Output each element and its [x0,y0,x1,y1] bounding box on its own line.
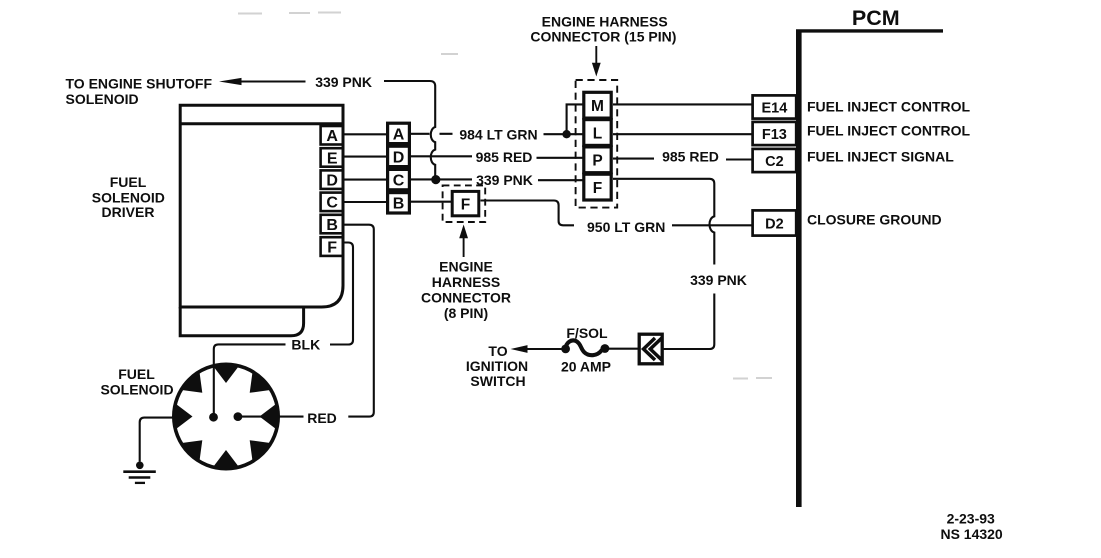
svg-text:FUEL INJECT CONTROL: FUEL INJECT CONTROL [807,123,971,139]
fuel solenoid driver lower slab [180,307,303,336]
wire RED: driver pin B right, down, label RED, to solenoid terminal [242,225,374,417]
svg-text:SWITCH: SWITCH [470,373,525,389]
PCM terminal D2 box [753,210,797,235]
ground connection dot [136,462,144,470]
arrowhead to engine shutoff solenoid [219,78,242,85]
arrow from 15-pin label down to connector [595,46,597,65]
svg-text:RED: RED [307,410,337,426]
junction dot 984 LT GRN at pin L [562,130,570,138]
arrowhead to ignition switch [511,345,528,353]
harness pin A [388,123,410,143]
wire fuse to splice [609,348,639,350]
svg-text:CONNECTOR: CONNECTOR [421,290,511,306]
svg-text:985 RED: 985 RED [476,149,533,165]
svg-text:D: D [326,173,338,190]
svg-text:C: C [393,173,405,190]
fuse F/SOL 20 AMP element [565,340,605,355]
PCM terminal F13 box [753,122,797,145]
wire branch up from junction to pin M [567,104,583,134]
splice chevron 2 [650,338,662,360]
svg-text:985 RED: 985 RED [662,149,719,165]
svg-text:984 LT GRN: 984 LT GRN [459,126,537,142]
PCM top horizontal line [796,29,943,32]
arrow from 8-pin label up to connector [463,236,465,257]
svg-text:F: F [461,196,470,213]
wire pin M to PCM E14 [613,103,752,105]
driver pin B [321,215,344,234]
faint scan artifact mid right [733,377,772,380]
driver pin D [321,170,344,189]
wire 950 LT GRN from 8-pin F right, down, to label [481,201,575,226]
solenoid terminal dot left [209,413,218,422]
wire 339 PNK from pin F right, down, hop over 950 wire, to splice [613,179,714,349]
svg-text:FUEL: FUEL [118,366,155,382]
faint scan artifact top [238,13,341,14]
8-pin connector pin F box [452,191,479,215]
svg-text:L: L [593,125,602,142]
svg-text:C2: C2 [765,154,784,170]
wire pin L to PCM F13 [613,133,752,135]
15-pin connector dashed outline [576,80,618,208]
wire 950 LT GRN label to PCM D2 [672,224,752,226]
15-pin connector pin M [584,92,611,118]
svg-text:2-23-93: 2-23-93 [947,510,995,526]
svg-text:B: B [326,217,338,234]
driver pin F [321,237,344,256]
svg-text:F: F [327,239,337,256]
15-pin connector pin F [584,174,611,200]
svg-text:TO: TO [488,343,507,359]
solenoid teeth (8 inward triangles) [175,366,277,468]
svg-text:(8 PIN): (8 PIN) [444,305,488,321]
wire pin D to harness C [343,179,386,181]
fuse left terminal dot [561,345,570,354]
splice connector box [639,334,662,364]
svg-text:FUEL INJECT SIGNAL: FUEL INJECT SIGNAL [807,149,954,165]
harness pin C [388,169,410,189]
svg-text:339 PNK: 339 PNK [476,172,533,188]
svg-text:20 AMP: 20 AMP [561,358,611,374]
wire 339 PNK top run to engine shutoff solenoid [239,80,306,82]
svg-text:B: B [393,196,405,213]
svg-text:IGNITION: IGNITION [466,358,528,374]
wire pin P to 985 RED label to PCM C2 [613,158,752,161]
wire TO IGNITION SWITCH arrow line [524,348,562,350]
svg-text:F: F [593,180,602,197]
svg-text:A: A [393,126,405,143]
svg-text:D2: D2 [765,216,784,232]
svg-text:PCM: PCM [852,6,900,30]
fuel solenoid circle [174,364,278,468]
wire 985 RED left segments [411,156,583,158]
harness pin D [388,146,410,166]
driver pin C [321,193,344,212]
solenoid terminal dot right [234,412,243,421]
svg-text:339 PNK: 339 PNK [315,74,372,90]
faint scan artifact near connector label [441,53,458,55]
splice chevron 1 [644,338,656,360]
svg-text:DRIVER: DRIVER [102,204,155,220]
harness pin B [388,193,410,213]
PCM terminal C2 box [753,149,797,172]
svg-text:SOLENOID: SOLENOID [92,189,165,205]
svg-text:M: M [591,98,604,115]
svg-text:E14: E14 [761,100,787,116]
15-pin connector pin P [584,147,611,173]
svg-text:F/SOL: F/SOL [566,325,608,341]
arrowhead up to 8-pin connector [459,225,468,239]
8-pin connector dashed outline [443,185,486,222]
wire 984 LT GRN segments [411,133,583,135]
wire 339 PNK mid segments [411,178,583,181]
svg-text:ENGINE HARNESS: ENGINE HARNESS [542,14,668,30]
wire BLK: driver pin F right, down, label BLK, left, down to solenoid [214,243,353,415]
wire harness B to 8-pin connector F [411,201,451,203]
wire pin C to harness B [343,201,386,203]
svg-text:F13: F13 [762,127,787,143]
fuse right terminal dot [601,344,610,353]
svg-text:950 LT GRN: 950 LT GRN [587,219,665,235]
15-pin connector pin L [584,120,611,146]
svg-text:C: C [326,195,338,212]
svg-text:FUEL: FUEL [110,174,147,190]
svg-text:TO ENGINE SHUTOFF: TO ENGINE SHUTOFF [66,76,213,92]
svg-text:HARNESS: HARNESS [432,274,500,290]
ground symbol lines [123,470,156,473]
svg-text:NS 14320: NS 14320 [940,526,1002,542]
svg-text:SOLENOID: SOLENOID [66,91,139,107]
svg-text:339 PNK: 339 PNK [690,272,747,288]
svg-text:CONNECTOR (15 PIN): CONNECTOR (15 PIN) [530,29,676,45]
wire 339 PNK from label down (wavy, hops over 984 and 985 wires) [384,81,435,178]
wire pin E to harness D [343,156,386,158]
svg-text:ENGINE: ENGINE [439,259,493,275]
svg-text:P: P [592,153,602,170]
svg-text:SOLENOID: SOLENOID [100,382,173,398]
arrowhead down to 15-pin connector [592,63,601,77]
svg-text:BLK: BLK [291,337,320,353]
svg-text:FUEL INJECT CONTROL: FUEL INJECT CONTROL [807,99,971,115]
fuel solenoid driver box outline [180,105,343,307]
fuel solenoid driver header band line [180,122,343,125]
junction dot 339 PNK at harness C row [431,175,440,184]
svg-text:E: E [327,150,338,167]
driver pin A [321,126,344,145]
PCM vertical boundary line [796,30,802,508]
PCM terminal E14 box [753,95,797,118]
wire solenoid left terminal to ground [140,418,173,462]
svg-text:D: D [393,149,405,166]
svg-text:CLOSURE GROUND: CLOSURE GROUND [807,212,942,228]
driver pin E [321,148,344,167]
wire pin A to harness A [343,133,386,135]
svg-text:A: A [326,128,338,145]
